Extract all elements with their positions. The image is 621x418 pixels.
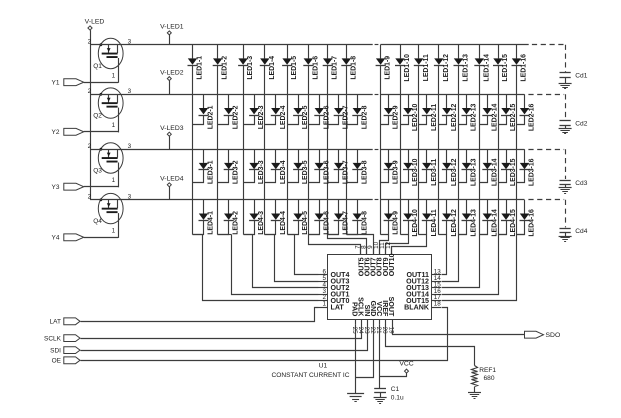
wire column 5 to IC pin OUT4 xyxy=(288,235,319,275)
LED LED2-6 xyxy=(314,94,330,129)
svg-text:Cd3: Cd3 xyxy=(575,180,587,187)
wire column 2 cathode bus xyxy=(217,65,219,234)
svg-text:LED4-14: LED4-14 xyxy=(491,209,498,237)
LED LED2-16 xyxy=(520,94,536,131)
wire row 3 anode rail xyxy=(90,149,525,151)
wire SDI to IC pin 23 SIN xyxy=(81,325,368,351)
wire column 6 to IC pin OUT5 xyxy=(309,235,361,255)
wire LED4-6 cathode to column bus xyxy=(309,221,320,235)
svg-text:LED4-5: LED4-5 xyxy=(302,211,309,235)
svg-text:LED1-14: LED1-14 xyxy=(483,54,490,82)
wire LED2-4 cathode to column bus xyxy=(265,116,276,125)
svg-text:LED4-11: LED4-11 xyxy=(431,209,438,236)
svg-text:22: 22 xyxy=(369,327,376,335)
wire column 7 cathode bus xyxy=(327,65,329,234)
ground for Cd3 xyxy=(559,188,572,194)
port Y3 xyxy=(52,183,84,191)
wire column 3 cathode bus xyxy=(243,65,245,234)
wire column 3 to IC pin OUT2 xyxy=(244,235,319,288)
wire column 10 cathode bus xyxy=(400,65,402,234)
LED LED3-3 xyxy=(249,149,265,184)
svg-text:LED3-8: LED3-8 xyxy=(361,160,368,184)
port Y4 xyxy=(52,234,84,242)
svg-text:LED2-9: LED2-9 xyxy=(393,105,400,129)
pin 3 label Q3 xyxy=(128,143,132,150)
IC pin 15 OUT13 xyxy=(406,281,441,292)
svg-text:LED4-4: LED4-4 xyxy=(280,211,287,235)
wire column 14 to IC pin OUT13 xyxy=(442,235,488,288)
LED LED4-6 xyxy=(314,200,330,235)
svg-text:LED1-3: LED1-3 xyxy=(247,56,254,80)
wire row 1 anode rail xyxy=(90,44,529,46)
port Y1 xyxy=(52,79,84,87)
LED LED3-12 xyxy=(442,149,458,186)
wire Y1 to gate of Q1 xyxy=(84,82,118,84)
wire column 15 to IC pin OUT14 xyxy=(442,235,507,295)
LED LED1-8 xyxy=(341,45,357,80)
wire LED2-5 cathode to column bus xyxy=(288,116,299,125)
port OE xyxy=(52,357,80,365)
wire column 9 to IC pin OUT8 xyxy=(380,235,389,255)
svg-text:V-LED: V-LED xyxy=(85,19,105,26)
pin 1 label Q1 xyxy=(112,72,116,79)
wire LED2-3 cathode to column bus xyxy=(244,116,255,125)
wire LED2-6 cathode to column bus xyxy=(309,116,320,125)
IC pin 10 OUT8 xyxy=(373,241,384,276)
svg-text:LED4-7: LED4-7 xyxy=(343,211,350,235)
LED LED2-2 xyxy=(224,94,240,129)
svg-text:LED2-10: LED2-10 xyxy=(412,103,419,131)
svg-text:LED4-9: LED4-9 xyxy=(393,211,400,235)
svg-text:Y4: Y4 xyxy=(52,235,60,242)
wire column 15 cathode bus xyxy=(498,65,500,234)
wire column 13 to IC pin OUT12 xyxy=(442,235,467,282)
svg-text:LED2-3: LED2-3 xyxy=(258,105,265,129)
wire LED4-14 cathode to column bus xyxy=(480,221,488,235)
svg-text:18: 18 xyxy=(434,301,442,308)
transistor Q4 xyxy=(93,193,123,237)
svg-text:V-LED4: V-LED4 xyxy=(160,175,184,182)
wire OE to IC pin 18 BLANK xyxy=(81,308,448,361)
wire column 8 to IC pin OUT7 xyxy=(347,235,374,255)
LED LED4-4 xyxy=(271,200,287,235)
svg-text:LED2-4: LED2-4 xyxy=(280,105,287,129)
svg-text:Cd1: Cd1 xyxy=(575,73,587,80)
LED LED2-14 xyxy=(482,94,498,131)
wire SOUT to SDO xyxy=(393,325,525,335)
wire PAD to ground xyxy=(355,325,357,394)
transistor Q1 xyxy=(93,38,123,83)
IC description CONSTANT CURRENT IC xyxy=(271,372,349,379)
wire LED4-13 cathode to column bus xyxy=(459,221,467,235)
svg-text:LED3-4: LED3-4 xyxy=(280,160,287,184)
wire LED3-3 cathode to column bus xyxy=(244,170,255,183)
svg-text:LED3-2: LED3-2 xyxy=(233,160,240,184)
LED LED1-7 xyxy=(323,45,339,80)
svg-text:LED3-7: LED3-7 xyxy=(343,160,350,184)
svg-text:LED1-7: LED1-7 xyxy=(332,56,339,80)
wire LED2-14 cathode to column bus xyxy=(480,116,488,125)
wire LED3-5 cathode to column bus xyxy=(288,170,299,183)
wire LED4-16 cathode to column bus xyxy=(517,221,525,235)
LED LED1-3 xyxy=(238,45,254,80)
svg-text:LED3-13: LED3-13 xyxy=(471,158,478,186)
LED LED3-16 xyxy=(520,149,536,186)
power terminal V-LED3 xyxy=(160,125,184,149)
wire VCC branch to VCC terminal xyxy=(380,373,407,377)
LED LED2-3 xyxy=(249,94,265,129)
wire column 4 to IC pin OUT3 xyxy=(265,235,319,282)
wire Y4 to gate of Q4 xyxy=(84,237,118,239)
wire LED3-2 cathode to column bus xyxy=(218,170,229,183)
svg-text:C1: C1 xyxy=(391,386,400,393)
port SDI xyxy=(50,347,80,355)
LED LED1-14 xyxy=(474,45,490,82)
pin 1 label Q4 xyxy=(112,227,116,234)
LED LED3-8 xyxy=(352,149,368,184)
wire LED4-8 cathode to column bus xyxy=(347,221,358,235)
svg-text:LED1-4: LED1-4 xyxy=(269,56,276,80)
LED LED4-1 xyxy=(199,200,215,235)
pin 3 label Q4 xyxy=(128,194,132,201)
svg-text:LED1-5: LED1-5 xyxy=(291,56,298,80)
wire column 11 cathode bus xyxy=(418,65,420,234)
LED LED4-10 xyxy=(403,200,419,237)
wire LED3-6 cathode to column bus xyxy=(309,170,320,183)
capacitor Cd2 xyxy=(528,94,587,128)
transistor Q3 xyxy=(93,143,123,188)
svg-text:1: 1 xyxy=(112,177,116,184)
LED LED3-1 xyxy=(199,149,215,184)
IC pin 18 BLANK xyxy=(404,301,441,312)
svg-text:LED3-15: LED3-15 xyxy=(510,158,517,186)
LED LED4-15 xyxy=(501,200,517,237)
wire column 14 cathode bus xyxy=(479,65,481,234)
wire Y3 to gate of Q3 xyxy=(84,186,118,188)
svg-text:LED2-2: LED2-2 xyxy=(233,105,240,129)
wire LED4-9 cathode to column bus xyxy=(381,221,389,235)
wire column 5 cathode bus xyxy=(287,65,289,234)
IC pin 8 OUT6 xyxy=(361,245,372,276)
wire LED3-4 cathode to column bus xyxy=(265,170,276,183)
svg-text:LED1-13: LED1-13 xyxy=(463,54,470,82)
IC designator U1 xyxy=(319,362,328,369)
IC pin 4 OUT2 xyxy=(319,281,350,292)
LED LED1-13 xyxy=(454,45,470,82)
IC pin 14 OUT12 xyxy=(406,275,441,286)
svg-text:LED1-1: LED1-1 xyxy=(197,56,204,80)
wire VCC pin down to C1 xyxy=(379,325,381,389)
svg-text:LED2-6: LED2-6 xyxy=(323,105,330,129)
svg-text:LED2-15: LED2-15 xyxy=(510,103,517,131)
LED LED2-4 xyxy=(271,94,287,129)
ground for REF1 xyxy=(468,393,481,399)
svg-text:LED3-14: LED3-14 xyxy=(491,158,498,186)
wire Y2 to gate of Q2 xyxy=(84,131,118,133)
svg-text:SDI: SDI xyxy=(50,347,61,354)
wire column 1 to IC pin OUT0 xyxy=(193,235,319,301)
LED LED4-11 xyxy=(422,200,438,237)
LED LED1-10 xyxy=(395,45,411,82)
wire column 4 cathode bus xyxy=(264,65,266,234)
svg-text:LED2-16: LED2-16 xyxy=(529,103,536,131)
svg-text:U1: U1 xyxy=(319,362,328,369)
LED LED3-11 xyxy=(422,149,438,186)
wire column 16 to IC pin OUT15 xyxy=(442,235,525,301)
IC pin 22 GND xyxy=(369,301,377,334)
capacitor Cd3 xyxy=(528,149,587,187)
svg-text:LED2-13: LED2-13 xyxy=(471,103,478,131)
svg-text:SOUT: SOUT xyxy=(387,297,395,317)
pin 3 label Q2 xyxy=(128,88,132,95)
svg-text:V-LED2: V-LED2 xyxy=(160,70,184,77)
svg-text:LED1-10: LED1-10 xyxy=(404,54,411,82)
IC pin 21 VCC xyxy=(375,301,383,334)
wire row 2 anode rail xyxy=(90,94,525,96)
wire column 6 cathode bus xyxy=(308,65,310,234)
LED LED4-14 xyxy=(482,200,498,237)
svg-text:LED1-6: LED1-6 xyxy=(312,56,319,80)
LED LED1-11 xyxy=(414,45,430,82)
LED LED3-7 xyxy=(334,149,350,184)
LED LED2-10 xyxy=(403,94,419,131)
LED LED1-1 xyxy=(188,45,204,80)
LED LED2-8 xyxy=(352,94,368,129)
wire LED4-4 cathode to column bus xyxy=(265,221,276,235)
svg-text:LED2-5: LED2-5 xyxy=(302,105,309,129)
wire LED3-8 cathode to column bus xyxy=(347,170,358,183)
svg-text:LED1-8: LED1-8 xyxy=(350,56,357,80)
svg-text:LED3-9: LED3-9 xyxy=(393,160,400,184)
wire LAT to IC pin 1 xyxy=(81,308,319,322)
pin 1 label Q2 xyxy=(112,122,116,129)
svg-text:LED4-1: LED4-1 xyxy=(208,211,215,235)
svg-text:LED3-16: LED3-16 xyxy=(529,158,536,186)
IC pin 7 OUT5 xyxy=(355,245,366,276)
pin 2 label Q4 xyxy=(88,194,92,201)
wire IREF to REF1 xyxy=(386,325,475,366)
power terminal V-LED2 xyxy=(160,70,184,95)
constant current IC U1 body xyxy=(328,255,432,320)
svg-text:CONSTANT CURRENT IC: CONSTANT CURRENT IC xyxy=(271,372,349,379)
wire LED2-12 cathode to column bus xyxy=(439,116,447,125)
svg-text:V-LED3: V-LED3 xyxy=(160,125,184,132)
svg-text:OUT10: OUT10 xyxy=(388,253,396,276)
wire LED4-7 cathode to column bus xyxy=(328,221,339,235)
port Y2 xyxy=(52,128,84,136)
wire LED3-1 cathode to column bus xyxy=(193,170,204,183)
LED LED4-7 xyxy=(334,200,350,235)
LED LED1-15 xyxy=(493,45,509,82)
svg-text:Y2: Y2 xyxy=(52,129,60,136)
svg-text:Q2: Q2 xyxy=(93,113,102,120)
svg-text:1: 1 xyxy=(112,72,116,79)
wire column 7 to IC pin OUT6 xyxy=(328,235,367,255)
wire LED2-10 cathode to column bus xyxy=(401,116,409,125)
IC pin 17 OUT15 xyxy=(406,294,441,305)
capacitor Cd1 xyxy=(532,45,588,84)
svg-text:0.1u: 0.1u xyxy=(391,395,404,402)
svg-text:LAT: LAT xyxy=(331,303,345,311)
LED LED2-5 xyxy=(293,94,309,129)
LED LED1-12 xyxy=(434,45,450,82)
pin 3 label Q1 xyxy=(128,39,132,46)
LED LED2-15 xyxy=(501,94,517,131)
transistor Q2 xyxy=(93,88,123,132)
port SCLK xyxy=(44,335,80,343)
IC pin 6 OUT4 xyxy=(319,268,350,279)
wire LED2-15 cathode to column bus xyxy=(499,116,507,125)
LED LED3-6 xyxy=(314,149,330,184)
IC pin 1 LAT xyxy=(319,301,345,312)
power terminal V-LED1 xyxy=(160,23,184,44)
wire LED2-9 cathode to column bus xyxy=(381,116,389,125)
port SDO xyxy=(525,331,561,339)
svg-text:Q4: Q4 xyxy=(93,218,102,225)
LED LED1-9 xyxy=(376,45,392,80)
pin 2 label Q1 xyxy=(88,39,92,46)
LED LED1-6 xyxy=(303,45,319,80)
svg-text:LED3-5: LED3-5 xyxy=(302,160,309,184)
LED LED1-5 xyxy=(282,45,298,80)
wire LED3-9 cathode to column bus xyxy=(381,170,389,183)
svg-text:VCC: VCC xyxy=(399,361,413,368)
wire column 2 to IC pin OUT1 xyxy=(218,235,319,295)
svg-text:LED2-14: LED2-14 xyxy=(491,103,498,131)
svg-text:1: 1 xyxy=(322,301,326,308)
wire LED2-13 cathode to column bus xyxy=(459,116,467,125)
IC pin 25 PAD xyxy=(351,302,359,334)
wire LED4-11 cathode to column bus xyxy=(419,221,427,235)
port LAT xyxy=(50,318,80,326)
IC pin 2 OUT0 xyxy=(319,294,350,305)
svg-text:LED2-7: LED2-7 xyxy=(343,105,350,129)
LED LED3-2 xyxy=(224,149,240,184)
wire LED2-16 cathode to column bus xyxy=(517,116,525,125)
svg-text:LED1-2: LED1-2 xyxy=(222,56,229,80)
LED LED2-9 xyxy=(384,94,400,129)
svg-text:LED4-13: LED4-13 xyxy=(471,209,478,237)
LED LED1-16 xyxy=(512,45,528,82)
wire LED2-8 cathode to column bus xyxy=(347,116,358,125)
wire V-LED bus vertical xyxy=(90,30,92,200)
svg-text:LED2-11: LED2-11 xyxy=(431,104,438,131)
svg-text:SDO: SDO xyxy=(546,332,561,339)
wire LED3-10 cathode to column bus xyxy=(401,170,409,183)
wire column 9 cathode bus xyxy=(380,65,382,234)
LED LED2-7 xyxy=(334,94,350,129)
svg-text:Y3: Y3 xyxy=(52,184,60,191)
ground for Cd1 xyxy=(559,84,572,89)
wire LED4-15 cathode to column bus xyxy=(499,221,507,235)
IC pin 9 OUT7 xyxy=(367,245,378,276)
svg-text:LED1-9: LED1-9 xyxy=(385,56,392,80)
wire column 12 to IC pin OUT11 xyxy=(442,235,447,275)
svg-text:LED3-11: LED3-11 xyxy=(431,159,438,186)
svg-text:LED2-8: LED2-8 xyxy=(361,105,368,129)
IC pin 20 IREF xyxy=(381,300,389,334)
svg-text:LED4-15: LED4-15 xyxy=(510,209,517,237)
svg-text:Q1: Q1 xyxy=(93,63,102,70)
wire column 13 cathode bus xyxy=(458,65,460,234)
svg-text:LED4-3: LED4-3 xyxy=(258,211,265,235)
pin 2 label Q3 xyxy=(88,143,92,150)
LED LED2-12 xyxy=(442,94,458,131)
wire LED4-1 cathode to column bus xyxy=(193,221,204,235)
capacitor C1 xyxy=(374,386,404,402)
wire column 10 to IC pin OUT9 xyxy=(386,235,409,255)
wire LED3-7 cathode to column bus xyxy=(328,170,339,183)
LED LED2-13 xyxy=(462,94,478,131)
svg-text:LED3-12: LED3-12 xyxy=(451,158,458,186)
ground for Cd4 xyxy=(559,237,572,242)
wire LED4-10 cathode to column bus xyxy=(401,221,409,235)
svg-text:LED3-10: LED3-10 xyxy=(412,158,419,186)
wire column 12 cathode bus xyxy=(438,65,440,234)
svg-text:LED4-8: LED4-8 xyxy=(361,211,368,235)
svg-text:LED4-6: LED4-6 xyxy=(323,211,330,235)
LED LED3-13 xyxy=(462,149,478,186)
svg-text:LED3-3: LED3-3 xyxy=(258,160,265,184)
svg-text:BLANK: BLANK xyxy=(404,303,430,311)
LED LED4-9 xyxy=(384,200,400,235)
IC pin 24 SCLK xyxy=(357,297,365,334)
LED LED3-4 xyxy=(271,149,287,184)
svg-text:Q3: Q3 xyxy=(93,168,102,175)
svg-text:1: 1 xyxy=(112,227,116,234)
svg-text:LED1-11: LED1-11 xyxy=(423,54,430,81)
svg-text:OE: OE xyxy=(52,358,62,365)
LED LED3-14 xyxy=(482,149,498,186)
svg-text:25: 25 xyxy=(351,327,358,335)
ground for Cd2 xyxy=(559,129,572,134)
LED LED4-2 xyxy=(224,200,240,235)
svg-text:1: 1 xyxy=(112,122,116,129)
power terminal VCC xyxy=(399,361,413,374)
svg-text:24: 24 xyxy=(357,327,364,335)
wire GND pin to PAD net xyxy=(356,325,374,378)
wire row 4 anode rail xyxy=(90,199,525,201)
LED LED4-12 xyxy=(442,200,458,237)
svg-text:680: 680 xyxy=(484,375,495,382)
pin 1 label Q3 xyxy=(112,177,116,184)
LED LED2-1 xyxy=(199,94,215,129)
wire LED2-11 cathode to column bus xyxy=(419,116,427,125)
svg-text:LED1-12: LED1-12 xyxy=(443,54,450,82)
svg-text:SCLK: SCLK xyxy=(44,335,62,342)
wire LED4-12 cathode to column bus xyxy=(439,221,447,235)
capacitor Cd4 xyxy=(528,200,587,237)
wire LED4-3 cathode to column bus xyxy=(244,221,255,235)
wire column 8 cathode bus xyxy=(346,65,348,234)
wire LED3-12 cathode to column bus xyxy=(439,170,447,183)
svg-text:LAT: LAT xyxy=(50,319,61,326)
LED LED1-2 xyxy=(213,45,229,80)
power terminal V-LED4 xyxy=(160,175,184,199)
LED LED4-8 xyxy=(352,200,368,235)
IC pin 16 OUT14 xyxy=(406,288,441,299)
LED LED1-4 xyxy=(260,45,276,80)
LED LED2-11 xyxy=(422,94,438,131)
wire LED3-16 cathode to column bus xyxy=(517,170,525,183)
LED LED3-10 xyxy=(403,149,419,186)
ground for C1 xyxy=(374,398,387,404)
IC pin 11 OUT9 xyxy=(379,242,390,276)
wire LED4-2 cathode to column bus xyxy=(218,221,229,235)
wire LED3-11 cathode to column bus xyxy=(419,170,427,183)
resistor REF1 xyxy=(472,366,497,393)
svg-text:Cd2: Cd2 xyxy=(575,121,587,128)
